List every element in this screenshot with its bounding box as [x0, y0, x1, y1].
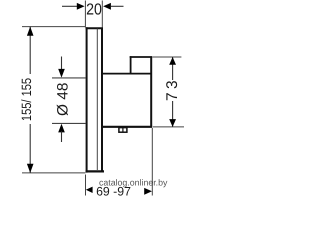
plate back thin line — [96, 29, 98, 171]
dim diameter 48 bottom line — [52, 122, 86, 124]
dim 73 down arrowhead — [169, 119, 176, 127]
sleeve line — [101, 28, 103, 170]
dim 155 line upper — [29, 27, 31, 74]
dim diameter 48 up arrowhead — [58, 124, 65, 133]
knob right face — [150, 56, 152, 127]
dim 155 down arrowhead — [27, 164, 34, 173]
dim 73 line lower — [172, 101, 174, 127]
dim 20 left tail — [62, 5, 77, 7]
dim 20 right tail — [111, 5, 124, 7]
button top edge — [130, 56, 152, 58]
dim 155 up arrowhead — [27, 27, 34, 36]
svg-text:155/ 155: 155/ 155 — [19, 78, 34, 121]
svg-text:20: 20 — [86, 2, 102, 19]
dim 73 up arrowhead — [169, 57, 176, 65]
dim 155 line lower — [29, 124, 31, 173]
dim 155 bottom extension line — [22, 172, 85, 174]
dim 20 left extension line — [84, 1, 86, 28]
tab divider — [122, 128, 124, 133]
dim 155 top extension line — [22, 26, 85, 28]
dim 69-97 right extension line — [151, 128, 153, 196]
dim diameter 48 top stem — [61, 57, 63, 71]
dim 69-97 left arrowhead — [86, 187, 93, 193]
plate top edge — [86, 27, 103, 29]
plate bottom edge — [86, 170, 104, 172]
plate front face — [86, 27, 88, 172]
dim 20 right arrowhead — [103, 3, 111, 10]
dim 20 left arrowhead — [77, 3, 85, 10]
dim diameter 48 top line — [52, 77, 86, 79]
knob top edge — [101, 73, 152, 75]
dim 69-97 left extension line — [85, 175, 87, 196]
dim diameter 48 bottom stem — [61, 131, 63, 142]
button left face — [130, 56, 132, 73]
svg-text:Ø 48: Ø 48 — [55, 83, 72, 117]
tab under knob — [119, 128, 127, 133]
knob bottom edge — [101, 126, 152, 128]
dim 73 bottom extension line — [153, 126, 184, 128]
dim diameter 48 down arrowhead — [58, 69, 65, 78]
dim 69-97 right arrowhead — [144, 188, 152, 195]
svg-text:catalog.onliner.by: catalog.onliner.by — [99, 178, 168, 188]
dim 73 line upper — [172, 57, 174, 80]
svg-text:73: 73 — [164, 77, 181, 101]
dim 20 right extension line — [101, 1, 103, 28]
dim 73 top extension line — [152, 56, 181, 58]
